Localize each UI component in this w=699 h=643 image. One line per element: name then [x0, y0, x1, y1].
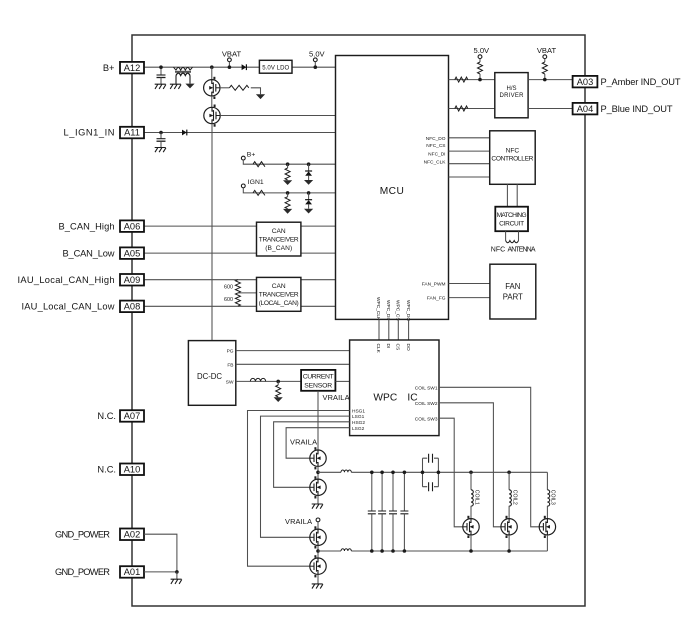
wire B+ sense to MCU	[243, 160, 335, 164]
svg-text:ANTENNA: ANTENNA	[508, 247, 536, 254]
ground (arrow) under choke right leg	[185, 84, 194, 89]
resistor R12 to ground	[277, 381, 279, 385]
wire CAN tranceiver to MCU (B_CAN high)	[301, 225, 336, 227]
svg-text:MCU: MCU	[380, 186, 404, 197]
resistor R9 pull-up	[478, 62, 483, 74]
svg-text:DO: DO	[405, 344, 411, 351]
connector pin A07	[120, 410, 144, 422]
capacitor C6 (bank)	[403, 472, 405, 511]
wire NFC_DO	[449, 137, 490, 139]
current sensor U10	[301, 370, 335, 391]
wire HSG2 to Q4 gate	[274, 422, 350, 488]
wire Q2 gate to MCU	[220, 115, 335, 117]
svg-text:NFC: NFC	[491, 247, 505, 254]
wire Q1 to Q2	[211, 96, 213, 107]
svg-text:COIL SW1: COIL SW1	[415, 385, 438, 391]
node: junction dot C1	[159, 65, 163, 69]
transistor Q9 (coil3 switch)	[539, 516, 555, 538]
svg-text:600: 600	[224, 297, 233, 303]
regulator U2 5.0V LDO	[259, 60, 292, 73]
connector pin A02	[120, 529, 144, 541]
wire NFC_CS	[449, 150, 490, 152]
wire CAN tranceiver to MCU (local low)	[301, 305, 336, 307]
matching circuit U7	[495, 207, 528, 232]
svg-text:CIRCUIT: CIRCUIT	[499, 220, 524, 227]
svg-text:IAU_Local_CAN_High: IAU_Local_CAN_High	[18, 275, 115, 285]
svg-text:HSG2: HSG2	[352, 420, 365, 426]
diode D1 on B+ line	[242, 64, 247, 70]
svg-text:NFC_DI: NFC_DI	[428, 152, 445, 158]
resistor R5 to ground	[287, 193, 289, 197]
svg-text:H/S: H/S	[506, 86, 516, 92]
wire MCU to H/S driver (amber)	[449, 79, 495, 81]
svg-text:VRAILA: VRAILA	[285, 517, 312, 526]
svg-text:A11: A11	[124, 128, 140, 138]
svg-text:WPC_DO: WPC_DO	[405, 300, 411, 321]
svg-text:5.0V: 5.0V	[473, 46, 490, 55]
svg-text:B+: B+	[247, 152, 256, 159]
svg-text:DI: DI	[385, 344, 391, 349]
wire A09 to CAN tranceiver	[144, 279, 257, 281]
node: junction dot bridge2 mid	[316, 549, 320, 553]
resistor R8	[455, 77, 468, 82]
connector pin A06	[120, 220, 144, 232]
resistor R7 600	[235, 293, 240, 306]
node: junction dot coil2 tap	[507, 471, 511, 475]
connector pin A09	[120, 274, 144, 286]
TVS diode Z1	[308, 164, 310, 171]
inductor L4 on lower bus	[341, 549, 351, 551]
resistor R2 on B+ sense	[253, 162, 265, 167]
svg-text:FAN_FG: FAN_FG	[427, 296, 446, 302]
wire Q4 source to ground	[317, 496, 319, 504]
resistor R1 at Q1 gate	[220, 87, 229, 89]
svg-text:(LOCAL_CAN): (LOCAL_CAN)	[259, 300, 299, 307]
VBAT terminal	[228, 58, 232, 62]
svg-text:GND_POWER: GND_POWER	[55, 529, 110, 539]
svg-text:VBAT: VBAT	[537, 46, 557, 55]
wire A05 to CAN tranceiver	[144, 252, 257, 254]
node: junction dots IGN1	[286, 191, 290, 195]
svg-text:B+: B+	[103, 63, 115, 73]
NFC controller U6	[490, 131, 536, 185]
ground (chassis) A01/A02	[176, 572, 178, 579]
svg-text:VRAILA: VRAILA	[290, 437, 317, 446]
node: junction dot A01/A02	[175, 570, 179, 574]
connector pin A10	[120, 464, 144, 476]
wire FAN_PWM	[449, 283, 490, 285]
wire Q2 down to DC-DC	[211, 124, 213, 341]
transistor Q7 (coil1 switch)	[463, 516, 479, 538]
connector pin A05	[120, 247, 144, 259]
svg-text:VRAILA: VRAILA	[323, 393, 350, 402]
node: junction dot pull-up amber	[478, 78, 482, 82]
resistor R6 600	[235, 280, 240, 293]
svg-text:A10: A10	[124, 464, 141, 474]
svg-text:IAU_Local_CAN_Low: IAU_Local_CAN_Low	[22, 302, 115, 312]
svg-text:MATCHING: MATCHING	[497, 212, 527, 219]
svg-text:TRANCEIVER: TRANCEIVER	[259, 237, 299, 244]
capacitor C1 at B+ input	[160, 67, 162, 75]
svg-text:A01: A01	[124, 567, 141, 577]
diode D2 on A11 line	[182, 130, 187, 136]
svg-text:5.0V LDO: 5.0V LDO	[262, 65, 289, 71]
svg-text:COIL3: COIL3	[550, 490, 556, 505]
wire MCU to WPC CS	[397, 319, 399, 340]
transistor Q2 (P-MOSFET)	[204, 105, 220, 127]
svg-text:FB: FB	[227, 362, 233, 368]
svg-text:DC-DC: DC-DC	[197, 372, 222, 381]
ground (chassis) under Q6	[312, 584, 323, 589]
svg-text:CONTROLLER: CONTROLLER	[491, 156, 533, 163]
svg-text:WPC IC: WPC IC	[373, 392, 417, 403]
ground (arrow) under Z1	[304, 180, 313, 185]
wire MCU to WPC CLK	[378, 319, 380, 340]
NFC antenna coil	[506, 231, 519, 240]
inductor COIL3	[546, 472, 548, 490]
capacitor C8 (series resonant bottom)	[423, 486, 439, 488]
VRAILA terminal (lower bridge)	[316, 518, 320, 522]
ground (arrow) under R12	[274, 397, 283, 402]
wire NFC to matching circuit	[507, 184, 517, 206]
svg-text:COIL SW3: COIL SW3	[415, 416, 438, 422]
outer border frame	[132, 35, 585, 606]
svg-text:NFC_CLK: NFC_CLK	[424, 160, 447, 166]
node: junction dots resonant loop	[421, 471, 425, 475]
svg-text:CLK: CLK	[375, 344, 381, 354]
DC-DC converter U9	[188, 341, 235, 406]
transistor Q4 (bridge1 low)	[310, 476, 326, 498]
capacitor C3 (bank)	[371, 472, 373, 511]
svg-text:PG: PG	[227, 349, 234, 355]
svg-text:A09: A09	[124, 275, 141, 285]
CAN tranceiver U3 (B_CAN)	[257, 222, 301, 256]
ground (arrow) under R3	[283, 180, 292, 185]
ground (chassis) under choke left leg	[170, 84, 181, 89]
wire Q6 source to ground	[317, 574, 319, 583]
ground (arrow) under Z2	[304, 209, 313, 214]
resistor R11 pull-up VBAT	[542, 62, 547, 74]
svg-text:B_CAN_High: B_CAN_High	[59, 221, 115, 231]
wire resonant bus upper	[318, 471, 547, 473]
wire MCU to WPC DI	[388, 319, 390, 340]
svg-text:A08: A08	[124, 302, 141, 312]
wire H/S driver to A04	[528, 108, 573, 110]
svg-text:WPC_CS: WPC_CS	[395, 300, 401, 321]
svg-text:PART: PART	[503, 293, 523, 302]
transistor Q6 (bridge2 low)	[310, 555, 326, 577]
wire CAN tranceiver to MCU (B_CAN low)	[301, 252, 336, 254]
wire FAN_FG	[449, 297, 490, 299]
connector pin A04	[573, 103, 598, 115]
svg-text:P_Amber IND_OUT: P_Amber IND_OUT	[601, 77, 681, 87]
wire FB to WPC	[236, 363, 350, 365]
MCU U1	[336, 56, 449, 320]
svg-text:TRANCEIVER: TRANCEIVER	[259, 292, 299, 299]
node: junction dot bridge1 mid	[316, 471, 320, 475]
svg-text:NFC_DO: NFC_DO	[426, 136, 446, 142]
wire NFC_DI	[449, 163, 490, 165]
node: junction dot VBAT pull-up	[543, 78, 547, 82]
wire VRAILA vertical	[317, 391, 319, 450]
connector pin A01	[120, 566, 144, 578]
svg-text:FAN: FAN	[505, 282, 520, 291]
transistor Q8 (coil2 switch)	[501, 516, 517, 538]
svg-text:N.C.: N.C.	[97, 464, 116, 474]
wire A02 to ground	[144, 534, 177, 572]
transistor Q5 (bridge2 high)	[310, 526, 326, 548]
capacitor C4 (bank)	[381, 472, 383, 511]
wire resonant bus lower	[318, 550, 547, 552]
svg-text:A12: A12	[124, 63, 141, 73]
svg-text:A05: A05	[124, 248, 141, 258]
node: junction dot SW	[276, 380, 280, 384]
wire CAN tranceiver to MCU (local high)	[301, 279, 336, 281]
svg-text:CAN: CAN	[272, 228, 286, 235]
svg-text:SW: SW	[226, 380, 234, 386]
connector pin A12	[120, 62, 144, 74]
capacitor C2 on A11 line	[159, 131, 163, 135]
capacitor C7 (series resonant top)	[423, 458, 439, 487]
WPC IC U11	[350, 340, 439, 436]
svg-text:SENSOR: SENSOR	[304, 383, 332, 390]
connector pin A08	[120, 301, 144, 313]
B+ sense terminal	[241, 156, 245, 160]
transistor Q1 (P-MOSFET high side)	[211, 67, 213, 79]
wire LDO to MCU	[292, 66, 336, 68]
svg-text:N.C.: N.C.	[97, 411, 116, 421]
ground (chassis) under C1	[155, 84, 166, 89]
node: junction dots B+ sense	[286, 162, 290, 166]
svg-text:VBAT: VBAT	[222, 49, 242, 58]
wire PG to WPC	[236, 350, 350, 352]
svg-text:L_IGN1_IN: L_IGN1_IN	[64, 128, 115, 138]
resistor R4 on IGN1	[253, 190, 265, 195]
5.0V terminal pull-up	[478, 55, 482, 59]
wire IGN1 to MCU	[243, 188, 335, 193]
wire B+ main line A12 to LDO	[144, 66, 259, 68]
svg-text:CURRENT: CURRENT	[303, 374, 334, 381]
svg-text:NFC_CS: NFC_CS	[426, 143, 445, 149]
wire Q3 to Q4	[317, 466, 319, 479]
svg-text:LSG1: LSG1	[352, 414, 365, 420]
VBAT terminal pull-up	[543, 55, 547, 59]
svg-text:B_CAN_Low: B_CAN_Low	[63, 248, 115, 258]
wire H/S driver to A03	[528, 79, 573, 81]
5.0V terminal at LDO output	[313, 58, 317, 62]
svg-text:DRIVER: DRIVER	[500, 93, 525, 99]
svg-text:A03: A03	[577, 77, 594, 87]
svg-text:HSG1: HSG1	[352, 409, 365, 415]
node: junction dot coil1 tap	[469, 471, 473, 475]
inductor COIL2	[508, 472, 510, 490]
wire A01 to ground	[144, 571, 177, 573]
resistor R10	[455, 106, 468, 111]
svg-text:WPC_DI: WPC_DI	[385, 300, 391, 319]
wire MCU to WPC DO	[408, 319, 410, 340]
wire A06 to CAN tranceiver	[144, 225, 257, 227]
wire A11 line to MCU	[144, 132, 336, 134]
ground (arrow) at R1	[256, 94, 265, 99]
inductor COIL1	[470, 472, 472, 490]
svg-text:IGN1: IGN1	[248, 179, 264, 186]
svg-text:LSG2: LSG2	[352, 426, 365, 432]
inductor L2 on SW line	[250, 378, 265, 381]
wire Q5 to Q6	[317, 546, 319, 559]
ground (arrow) under R5	[283, 209, 292, 214]
ground (chassis) under C2	[155, 148, 166, 153]
svg-text:A07: A07	[124, 411, 141, 421]
svg-text:CAN: CAN	[272, 283, 286, 290]
wire NFC_CLK	[449, 176, 490, 178]
wire resistor mid tap	[238, 292, 257, 294]
svg-text:A06: A06	[124, 221, 141, 231]
H/S driver U5	[495, 73, 528, 118]
svg-text:WPC_CLK: WPC_CLK	[375, 297, 381, 321]
wire HSG1 to Q6 gate	[248, 411, 350, 567]
svg-text:P_Blue IND_OUT: P_Blue IND_OUT	[601, 104, 673, 114]
IGN1 terminal	[241, 184, 245, 188]
inductor L3 on upper bus	[341, 470, 351, 472]
svg-text:COIL2: COIL2	[511, 490, 517, 505]
svg-text:NFC: NFC	[506, 148, 520, 155]
common-mode choke L1	[174, 67, 193, 84]
ground (chassis) under Q4	[312, 504, 323, 509]
wire LSG1 to Q5 gate	[261, 416, 350, 537]
wire COIL SW2	[439, 403, 501, 527]
wire COIL SW3	[439, 418, 463, 527]
wire SW to current sensor	[236, 380, 301, 382]
wire current sensor to WPC	[335, 380, 349, 382]
wire LSG2 to Q3 gate	[286, 428, 350, 459]
svg-text:COIL SW2: COIL SW2	[415, 401, 438, 407]
capacitor C5 (bank)	[392, 472, 394, 511]
svg-text:A02: A02	[124, 529, 141, 539]
wire MCU to H/S driver (blue)	[449, 108, 495, 110]
svg-text:600: 600	[224, 285, 233, 291]
node: junction dot Q1 branch	[210, 65, 214, 69]
transistor Q3 (bridge1 high)	[310, 447, 326, 469]
svg-text:FAN_PWM: FAN_PWM	[422, 282, 446, 288]
resistor R3 to ground	[287, 164, 289, 168]
connector pin A03	[573, 76, 598, 88]
TVS diode Z2	[308, 193, 310, 200]
fan part U8	[490, 264, 536, 319]
svg-text:COIL1: COIL1	[473, 490, 479, 505]
svg-text:(B_CAN): (B_CAN)	[265, 245, 292, 252]
wire COIL SW1	[439, 387, 539, 527]
svg-text:5.0V: 5.0V	[309, 49, 326, 58]
svg-text:GND_POWER: GND_POWER	[55, 567, 110, 577]
wire A08 to CAN tranceiver	[144, 305, 257, 307]
svg-text:A04: A04	[577, 104, 594, 114]
CAN tranceiver U4 (LOCAL_CAN)	[257, 277, 301, 311]
connector pin A11	[120, 127, 144, 139]
svg-text:CS: CS	[395, 344, 401, 351]
